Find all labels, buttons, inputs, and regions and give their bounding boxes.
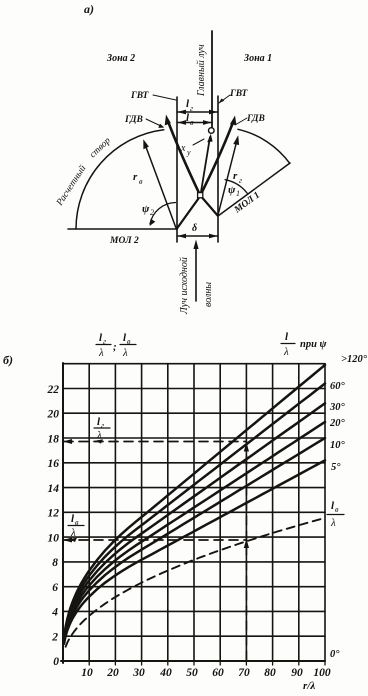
- pointer for x_u: [193, 139, 204, 145]
- curve 60deg: [64, 384, 325, 640]
- svg-text:40: 40: [159, 667, 172, 679]
- svg-text:30: 30: [132, 667, 145, 679]
- svg-text:8: 8: [52, 557, 58, 569]
- ray from vertex to circle with arrowhead: [201, 137, 211, 195]
- svg-text:12: 12: [48, 508, 60, 520]
- svg-text:l: l: [285, 331, 289, 343]
- dashed vertical construction line at 70: [245, 444, 247, 660]
- y axis numerals: [47, 384, 60, 668]
- svg-text:λ: λ: [283, 346, 289, 358]
- svg-text:λ: λ: [122, 347, 128, 359]
- vertex square node: [198, 193, 203, 198]
- dashed construction line at 10: [64, 539, 246, 541]
- svg-text:0: 0: [53, 656, 59, 668]
- svg-text:60: 60: [212, 667, 224, 679]
- reflector left leg (thick V) with arrowhead: [168, 120, 201, 195]
- label psi2: [142, 203, 154, 217]
- curve 5deg: [64, 460, 325, 644]
- svg-text:ГВТ: ГВТ: [229, 89, 249, 99]
- svg-text:МОЛ 2: МОЛ 2: [109, 236, 139, 246]
- axes emphasized: [62, 363, 64, 663]
- svg-text:ГДВ: ГДВ: [246, 114, 265, 124]
- leg vertex to right base: [203, 198, 218, 216]
- svg-text:в: в: [335, 505, 339, 514]
- curve >120deg: [64, 365, 325, 638]
- svg-text:r: r: [233, 170, 238, 182]
- right header fraction l/lambda pri psi: [283, 331, 328, 358]
- svg-text:6: 6: [52, 582, 58, 594]
- svg-text:λ: λ: [98, 347, 104, 359]
- svg-text:λ: λ: [70, 527, 76, 539]
- leg vertex to left base: [177, 199, 199, 230]
- svg-text:20: 20: [47, 409, 60, 421]
- svg-text:50: 50: [186, 667, 198, 679]
- svg-text:4: 4: [51, 607, 58, 619]
- svg-text:0°: 0°: [330, 649, 340, 660]
- l_g measure line: [177, 111, 218, 113]
- svg-text:20°: 20°: [329, 418, 346, 429]
- x axis numerals: [81, 667, 331, 679]
- label l_g: [186, 98, 193, 113]
- svg-text:70: 70: [238, 667, 250, 679]
- curve 10deg: [64, 438, 325, 642]
- GVT right pointer: [219, 95, 230, 103]
- reflector right leg (thick V) with arrowhead: [201, 121, 234, 195]
- main beam axis vertical line: [211, 31, 213, 127]
- dashed curve l_v/lambda: [66, 518, 325, 647]
- svg-text:r: r: [133, 171, 138, 183]
- svg-text:при ψ: при ψ: [300, 339, 328, 350]
- curve labels right: [329, 354, 368, 660]
- svg-text:30°: 30°: [329, 402, 346, 413]
- in-plot fraction l_v/lambda: [70, 513, 79, 539]
- GDV right pointer: [235, 118, 247, 125]
- y axis header fractions l_g/lambda ; l_v/lambda: [98, 332, 131, 359]
- svg-text:г: г: [239, 176, 242, 185]
- svg-text:Зона 2: Зона 2: [106, 53, 135, 64]
- svg-text:ψ: ψ: [142, 203, 150, 215]
- label r_g: [233, 170, 242, 185]
- MOL 2 baseline: [68, 228, 177, 230]
- svg-text:18: 18: [48, 433, 60, 445]
- psi1 angle arc: [225, 180, 247, 194]
- svg-text:створ: створ: [88, 136, 113, 160]
- svg-text:80: 80: [264, 667, 276, 679]
- svg-text:ГВТ: ГВТ: [130, 91, 150, 101]
- svg-text:90: 90: [291, 667, 303, 679]
- svg-text:волны: волны: [203, 282, 214, 307]
- svg-text:2: 2: [150, 208, 154, 217]
- l_v measure line: [177, 122, 212, 124]
- svg-text:1: 1: [236, 189, 240, 198]
- curve 30deg: [64, 403, 325, 640]
- label r_v: [133, 171, 143, 186]
- r_v radius arrow: [145, 143, 177, 228]
- svg-text:Расчетный: Расчетный: [54, 163, 89, 208]
- svg-text:г: г: [190, 104, 193, 113]
- in-plot fraction l_g/lambda: [96, 416, 104, 442]
- svg-text:λ: λ: [330, 517, 336, 529]
- r_g radius arrow: [218, 139, 237, 215]
- svg-text:2: 2: [51, 632, 58, 644]
- GVT left pointer: [153, 95, 176, 100]
- svg-text:Луч исходной: Луч исходной: [179, 257, 190, 315]
- svg-text:14: 14: [48, 483, 60, 495]
- svg-text:10: 10: [81, 667, 93, 679]
- svg-text:а): а): [84, 2, 94, 16]
- right sector arc: [238, 129, 290, 163]
- svg-text:б): б): [3, 353, 13, 367]
- right GVT vertical: [217, 96, 219, 242]
- svg-text:ψ: ψ: [228, 184, 236, 196]
- svg-text:в: в: [190, 118, 194, 127]
- svg-text:20: 20: [106, 667, 119, 679]
- svg-text:100: 100: [313, 667, 331, 679]
- GDV left pointer: [146, 119, 163, 127]
- incident wave arrow: [195, 244, 197, 301]
- svg-text:22: 22: [47, 384, 60, 396]
- label l_v: [186, 112, 194, 127]
- svg-text:Главный луч: Главный луч: [196, 44, 207, 97]
- psi2 angle arc: [150, 203, 176, 224]
- svg-text:r/λ: r/λ: [303, 680, 315, 692]
- svg-text:в: в: [139, 177, 143, 186]
- label x_u: [180, 143, 191, 157]
- svg-text:16: 16: [48, 458, 60, 470]
- MOL 1 line: [218, 163, 290, 216]
- label psi1: [228, 184, 240, 198]
- left calculated-range arc: [76, 130, 164, 229]
- svg-text:ГДВ: ГДВ: [124, 115, 143, 125]
- svg-text:>120°: >120°: [341, 354, 368, 365]
- svg-text:60°: 60°: [330, 381, 346, 392]
- svg-text:δ: δ: [192, 223, 197, 234]
- svg-text:10°: 10°: [330, 440, 346, 451]
- dashed construction line at 18: [64, 441, 246, 443]
- svg-text:5°: 5°: [331, 462, 341, 473]
- left GVT vertical: [176, 97, 178, 242]
- curve 20deg: [64, 422, 325, 641]
- svg-text:Зона 1: Зона 1: [243, 53, 272, 64]
- right fraction l_v/lambda near dashed curve: [330, 500, 339, 529]
- x-axis ticks: [89, 661, 325, 665]
- delta measure line: [177, 235, 218, 237]
- svg-text:у: у: [186, 148, 191, 157]
- svg-text:;: ;: [113, 341, 117, 353]
- svg-text:10: 10: [48, 532, 60, 544]
- small circle node on axis: [209, 128, 215, 134]
